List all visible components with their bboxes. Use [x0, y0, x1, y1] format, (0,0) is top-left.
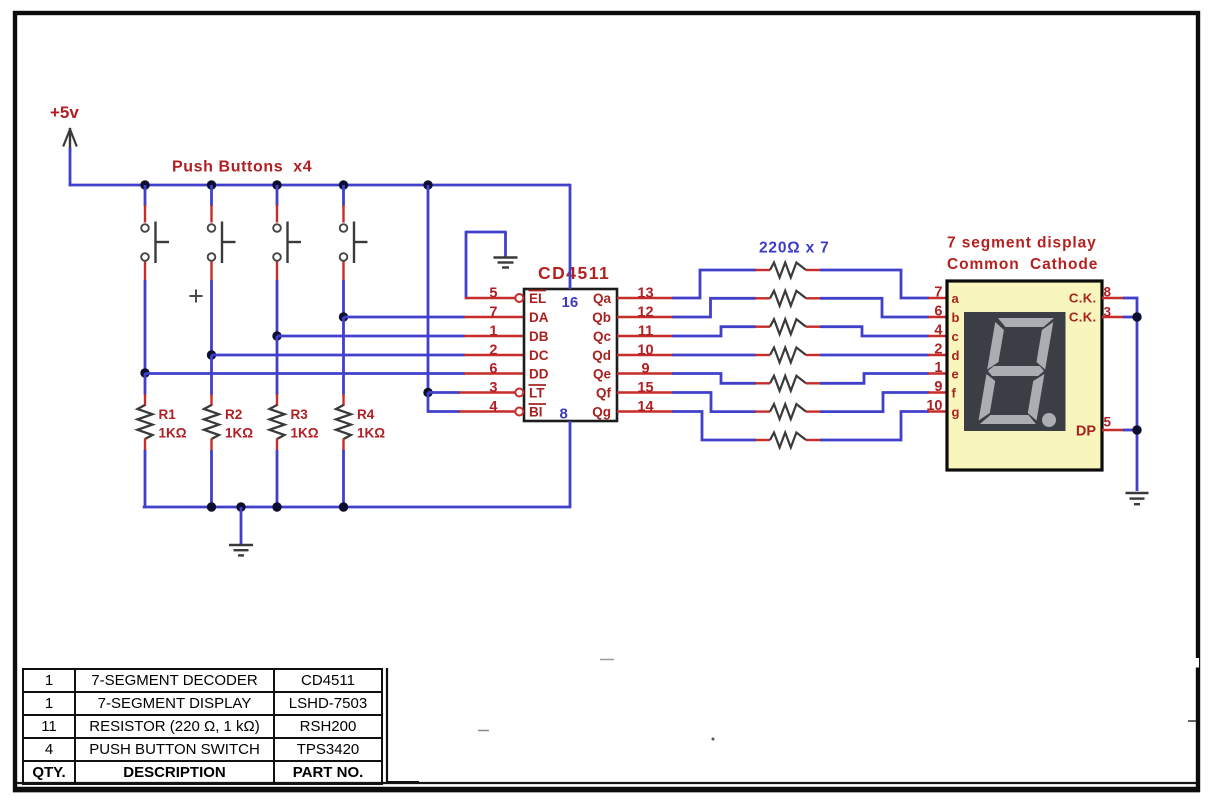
resistor 220R #1 [770, 263, 806, 278]
resistor 220R #5 leads [755, 382, 770, 384]
svg-text:5: 5 [489, 286, 497, 302]
wire SW3 to node [276, 262, 278, 282]
resistor 220R #1 leads [755, 269, 770, 271]
svg-text:f: f [952, 386, 957, 401]
wire Qf to resistor row 6 [672, 393, 756, 412]
display dark panel [964, 312, 1066, 431]
wire C.K. pin8 [1102, 297, 1124, 299]
svg-text:R3: R3 [291, 407, 309, 422]
wire R1 to bottom rail [144, 439, 146, 452]
svg-text:4: 4 [489, 399, 497, 415]
wire VDD pin16 from rail [569, 184, 572, 289]
wire down to BI [427, 393, 430, 413]
wire DC bus from column 2 [212, 354, 466, 357]
junction dot bottom rail [207, 502, 216, 511]
wire resistor row 3 to display [820, 327, 929, 336]
wire resistor row 1 to display [820, 270, 929, 298]
svg-text:12: 12 [637, 305, 653, 321]
svg-text:10: 10 [637, 343, 653, 359]
svg-text:Qg: Qg [592, 405, 611, 420]
wire display stub red [928, 316, 947, 318]
wire node to R4 [342, 317, 345, 395]
wire resistor row 2 to display [820, 298, 929, 317]
junction dot node column 4 [339, 312, 348, 321]
svg-text:2: 2 [934, 342, 942, 358]
wire R4 to bottom rail [342, 439, 344, 452]
wire resistor row 5 to display [820, 374, 929, 384]
table outer right border [386, 668, 388, 783]
svg-text:R2: R2 [225, 407, 242, 422]
wire display stub red [928, 410, 947, 412]
resistor 220R #7 [770, 433, 806, 448]
svg-text:c: c [952, 329, 959, 344]
wire SW2 to node [210, 262, 212, 282]
wire output Qa red stub [617, 297, 673, 299]
wire EL pin [465, 297, 516, 299]
wire rail to SW2 [210, 185, 213, 206]
inversion bubble [515, 408, 523, 416]
wire output Qb red stub [617, 316, 673, 318]
svg-text:220Ω x 7: 220Ω x 7 [759, 240, 830, 257]
wire node to R1 [144, 373, 147, 395]
junction dot rail / SW2 [207, 180, 216, 189]
svg-text:9: 9 [641, 361, 649, 377]
svg-text:R1: R1 [159, 407, 177, 422]
wire bottom ground rail [143, 506, 572, 509]
wire DP pin5 [1102, 429, 1124, 431]
svg-text:11: 11 [638, 324, 653, 340]
resistor 220R #3 leads [755, 326, 770, 328]
push button SW3 [273, 224, 281, 232]
wire SW4 to node [342, 262, 344, 282]
svg-text:Qd: Qd [592, 348, 611, 363]
svg-text:6: 6 [489, 361, 497, 377]
svg-text:10: 10 [926, 398, 942, 414]
push button SW2 [208, 224, 216, 232]
wire output Qd red stub [617, 354, 673, 356]
junction dot cathode pin3 [1132, 312, 1141, 321]
svg-text:Qb: Qb [592, 310, 611, 325]
display digit 8 [978, 318, 1054, 424]
wire rail to SW3 [276, 185, 279, 206]
wire Qa to resistor row 1 [672, 270, 756, 298]
svg-text:DP: DP [1076, 424, 1096, 440]
wire Qb to resistor row 2 [672, 298, 756, 317]
wire display stub red [928, 354, 947, 356]
svg-text:16: 16 [562, 294, 579, 311]
wire output Qc red stub [617, 335, 673, 337]
wire +5v vertical feed [69, 148, 72, 186]
svg-text:b: b [952, 310, 960, 325]
svg-text:1: 1 [934, 360, 942, 376]
symbol plus mark [190, 295, 203, 297]
resistor R3 [270, 405, 285, 439]
wire cathode vertical [1136, 297, 1139, 491]
svg-text:Common Cathode: Common Cathode [947, 256, 1098, 273]
svg-text:8: 8 [1104, 285, 1112, 300]
resistor 220R #4 [770, 348, 806, 363]
svg-text:DA: DA [529, 310, 549, 325]
ground display cathode [1126, 492, 1149, 494]
svg-text:d: d [952, 348, 960, 363]
svg-text:2: 2 [489, 343, 497, 359]
parts table BOM [22, 668, 383, 785]
junction dot bottom rail [339, 502, 348, 511]
svg-text:Qa: Qa [593, 291, 612, 306]
svg-text:e: e [952, 367, 959, 382]
svg-text:1KΩ: 1KΩ [159, 426, 187, 441]
svg-text:CD4511: CD4511 [538, 263, 610, 283]
junction dot node column 1 [140, 368, 149, 377]
svg-text:4: 4 [934, 323, 942, 339]
svg-text:1KΩ: 1KΩ [357, 426, 385, 441]
resistor 220R #7 leads [755, 439, 770, 441]
svg-text:7: 7 [489, 305, 497, 321]
svg-text:Qe: Qe [593, 367, 612, 382]
resistor 220R #5 [770, 376, 806, 391]
resistor 220R #3 [770, 319, 806, 334]
svg-text:a: a [952, 291, 960, 306]
ground bottom rail [229, 544, 253, 546]
wire VSS pin8 to ground rail [569, 421, 572, 507]
wire DA bus from column 4 [344, 316, 466, 319]
resistor R1 [138, 405, 153, 439]
svg-text:3: 3 [1104, 305, 1112, 320]
wire Qe to resistor row 5 [672, 374, 756, 384]
wire +5v top rail [69, 184, 570, 187]
inversion bubble [515, 294, 523, 302]
svg-text:7 segment display: 7 segment display [947, 235, 1097, 252]
svg-text:+5v: +5v [50, 103, 79, 122]
junction dot LT node [423, 388, 432, 397]
wire output Qg red stub [617, 410, 673, 412]
wire node to R2 [210, 355, 213, 395]
svg-text:13: 13 [637, 286, 653, 302]
junction dot rail LT/BI feed [423, 180, 432, 189]
wire output Qe red stub [617, 372, 673, 374]
wire DD bus from column 1 [145, 372, 465, 375]
junction dot rail / SW4 [339, 180, 348, 189]
push button SW1 [141, 224, 149, 232]
wire Qd to resistor row 4 [672, 354, 756, 357]
resistor 220R #6 leads [755, 410, 770, 412]
svg-text:C.K.: C.K. [1069, 291, 1097, 306]
svg-text:EL: EL [529, 291, 546, 306]
wire rail to SW4 [342, 185, 345, 206]
svg-text:9: 9 [934, 379, 942, 395]
wire BI node to pin [428, 410, 460, 413]
svg-text:6: 6 [934, 304, 942, 320]
wire display stub red [928, 335, 947, 337]
junction dot node column 2 [207, 350, 216, 359]
op-amp / IC CD4511 U1 body [524, 289, 617, 421]
ground near EL [494, 256, 518, 258]
resistor 220R #6 [770, 404, 806, 419]
svg-text:1: 1 [489, 324, 497, 340]
junction dot bottom rail [272, 502, 281, 511]
wire resistor row 4 to display [820, 354, 929, 357]
svg-text:1KΩ: 1KΩ [225, 426, 253, 441]
inversion bubble [515, 389, 523, 397]
resistor 220R #2 leads [755, 297, 770, 299]
wire Qg to resistor row 7 [672, 412, 756, 441]
resistor R4 [336, 405, 351, 439]
svg-text:5: 5 [1104, 415, 1112, 430]
power +5v arrow [69, 131, 71, 152]
wire SW1 to node [144, 262, 146, 282]
svg-text:DB: DB [529, 329, 549, 344]
svg-text:R4: R4 [357, 407, 375, 422]
stray mark [600, 659, 614, 661]
wire node to R3 [276, 336, 279, 395]
push button SW4 [340, 224, 348, 232]
svg-text:3: 3 [489, 380, 497, 396]
wire output Qf red stub [617, 391, 673, 393]
display decimal point [1042, 413, 1056, 427]
resistor R2 [204, 405, 219, 439]
wire rail to SW1 [144, 185, 147, 206]
svg-text:Qf: Qf [596, 386, 612, 401]
svg-text:7: 7 [934, 285, 942, 301]
7-segment display DS1 body [947, 281, 1102, 470]
junction dot bottom rail [236, 502, 245, 511]
svg-text:BI: BI [529, 405, 543, 420]
wire EL ground loop [466, 231, 507, 234]
wire LT node to pin [428, 391, 460, 394]
wire display stub red [928, 372, 947, 374]
svg-text:14: 14 [637, 399, 653, 415]
wire rail down to LT [427, 185, 430, 394]
wire resistor row 6 to display [820, 393, 929, 412]
svg-text:DD: DD [529, 367, 549, 382]
wire display stub red [928, 391, 947, 393]
svg-text:g: g [952, 405, 960, 420]
wire Qc to resistor row 3 [672, 327, 756, 336]
svg-text:LT: LT [529, 386, 545, 401]
wire R2 to bottom rail [210, 439, 212, 452]
wire R3 to bottom rail [276, 439, 278, 452]
wire DB bus from column 3 [277, 335, 465, 338]
resistor 220R #2 [770, 291, 806, 306]
junction dot node column 3 [272, 331, 281, 340]
svg-text:15: 15 [637, 380, 653, 396]
svg-text:DC: DC [529, 348, 549, 363]
svg-text:1KΩ: 1KΩ [291, 426, 319, 441]
wire ground stub [240, 507, 243, 545]
junction dot rail / SW3 [272, 180, 281, 189]
resistor 220R #4 leads [755, 354, 770, 356]
junction dot cathode DP [1132, 425, 1141, 434]
junction dot rail / SW1 [140, 180, 149, 189]
wire C.K. pin3 [1102, 316, 1124, 318]
svg-text:Qc: Qc [593, 329, 612, 344]
svg-text:Push Buttons x4: Push Buttons x4 [172, 159, 312, 176]
wire resistor row 7 to display [820, 412, 929, 441]
wire display stub red [928, 297, 947, 299]
svg-text:C.K.: C.K. [1069, 310, 1097, 325]
svg-text:8: 8 [560, 406, 568, 423]
